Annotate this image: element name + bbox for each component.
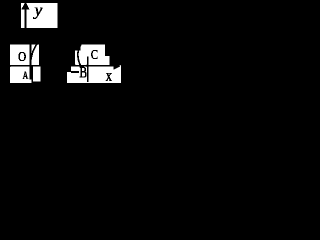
- svg-text:x: x: [106, 66, 113, 85]
- label background box: C label box upper: [81, 44, 105, 58]
- x-axis arrowhead: [114, 62, 121, 69]
- y-axis lower segment through O/A boxes: [30, 44, 31, 79]
- label background box: strip right of C above axis: [95, 56, 110, 65]
- label background box: lower-left notch of B area: [67, 72, 73, 83]
- label background box: C area wider lower box: [75, 50, 105, 64]
- right arc descending from C to axis: [78, 44, 81, 64]
- label background box: B/x strip below axis: [71, 65, 121, 83]
- ledge line left of B: [71, 71, 79, 73]
- background: [0, 0, 130, 117]
- svg-text:y: y: [33, 1, 43, 20]
- y-axis arrowhead: [22, 2, 30, 9]
- svg-text:C: C: [91, 48, 98, 63]
- label background box: right sliver column: [33, 65, 41, 82]
- x-axis line: [10, 65, 114, 67]
- right vertical wall line behind B: [87, 57, 89, 83]
- label background box: A box: [10, 64, 31, 83]
- y-axis arrow stem: [25, 8, 27, 28]
- svg-text:B: B: [79, 64, 87, 81]
- svg-text:O: O: [18, 50, 26, 65]
- svg-text:A: A: [23, 70, 29, 82]
- left curve rising from origin: [31, 44, 37, 60]
- label background box: y-axis box: [21, 3, 58, 28]
- label background box: O box: [10, 44, 39, 66]
